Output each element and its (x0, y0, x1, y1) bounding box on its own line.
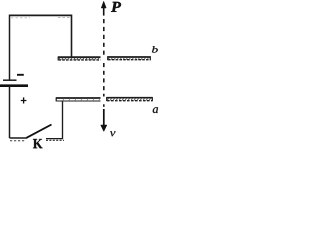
plate a right segment (107, 97, 153, 101)
battery positive plate (long thick) (0, 84, 28, 87)
battery minus label (17, 74, 24, 76)
hatch under bottom-left wire (10, 140, 25, 142)
plate b left segment (58, 57, 101, 61)
wire left vertical lower (9, 86, 11, 138)
hatch under switch right contact (46, 139, 64, 141)
faint scan artifact under top wire (11, 17, 70, 19)
label a (153, 107, 158, 113)
label b (152, 46, 158, 52)
plate a left segment (56, 97, 101, 101)
dashed axis lower dash (103, 104, 105, 107)
plate b right segment (108, 56, 151, 60)
wire left vertical upper (9, 15, 11, 81)
wire bottom horizontal (10, 137, 28, 139)
wire top-right vertical to plate b (71, 15, 73, 58)
switch right contact (46, 138, 63, 140)
label K (33, 139, 43, 148)
wire right vertical (plate a to switch) (62, 102, 64, 139)
battery plus label (21, 97, 27, 103)
battery negative plate (short) (3, 79, 17, 81)
switch K blade (open) (27, 125, 52, 138)
dashed axis upper section (103, 19, 105, 55)
dashed axis middle section (103, 63, 105, 97)
label v (110, 131, 116, 136)
arrow P upward (101, 1, 106, 15)
arrow v downward (101, 109, 107, 132)
wire top horizontal (10, 14, 72, 16)
label P (111, 2, 121, 12)
